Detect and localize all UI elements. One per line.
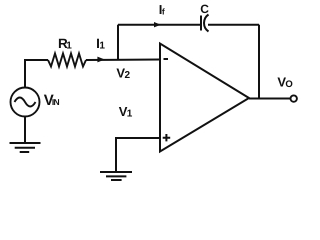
- svg-text:1: 1: [66, 40, 72, 51]
- svg-text:O: O: [285, 79, 292, 90]
- svg-text:1: 1: [99, 40, 105, 51]
- svg-text:C: C: [200, 2, 209, 16]
- svg-text:IN: IN: [52, 97, 60, 107]
- svg-text:f: f: [162, 7, 165, 17]
- svg-text:2: 2: [125, 70, 131, 81]
- svg-text:1: 1: [127, 108, 133, 119]
